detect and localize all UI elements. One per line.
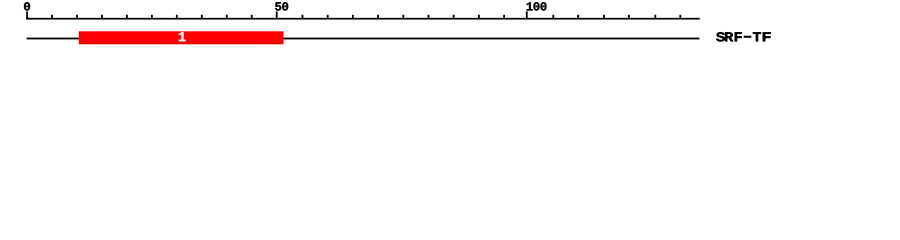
ruler minor tick 75 <box>402 15 404 20</box>
ruler minor tick 15 <box>101 15 103 20</box>
domain copy number label 1 <box>179 32 186 41</box>
ruler minor tick 35 <box>201 15 203 20</box>
ruler minor tick 20 <box>126 15 128 20</box>
ruler minor tick 5 <box>51 15 53 20</box>
ruler minor tick 110 <box>577 15 579 20</box>
ruler minor tick 30 <box>176 15 178 20</box>
sequence line <box>27 38 700 40</box>
ruler minor tick 60 <box>327 15 329 20</box>
ruler scale label 0 <box>24 2 30 10</box>
ruler scale label 50 <box>275 2 288 10</box>
ruler major tick 100 <box>526 11 528 19</box>
ruler minor tick 95 <box>503 15 505 20</box>
ruler minor tick 120 <box>628 15 630 20</box>
ruler minor tick 85 <box>453 15 455 20</box>
ruler major tick 0 <box>26 11 28 19</box>
ruler minor tick 55 <box>302 15 304 20</box>
domain box SRF-TF (red) <box>79 31 284 44</box>
domain name label SRF-TF <box>716 32 742 41</box>
ruler minor tick 10 <box>76 15 78 20</box>
ruler minor tick 115 <box>603 15 605 20</box>
ruler minor tick 130 <box>679 15 681 20</box>
domain name label TF <box>753 32 771 41</box>
ruler scale label 100 <box>527 2 547 10</box>
ruler minor tick 40 <box>226 15 228 20</box>
ruler minor tick 65 <box>352 15 354 20</box>
ruler minor tick 80 <box>428 15 430 20</box>
ruler minor tick 125 <box>654 15 656 20</box>
domain name label dash <box>744 36 752 38</box>
ruler major tick 50 <box>276 11 278 19</box>
ruler minor tick 45 <box>251 15 253 20</box>
background <box>0 0 900 58</box>
ruler minor tick 90 <box>478 15 480 20</box>
ruler minor tick 70 <box>377 15 379 20</box>
ruler minor tick 105 <box>552 15 554 20</box>
ruler baseline <box>26 18 700 20</box>
ruler minor tick 25 <box>151 15 153 20</box>
